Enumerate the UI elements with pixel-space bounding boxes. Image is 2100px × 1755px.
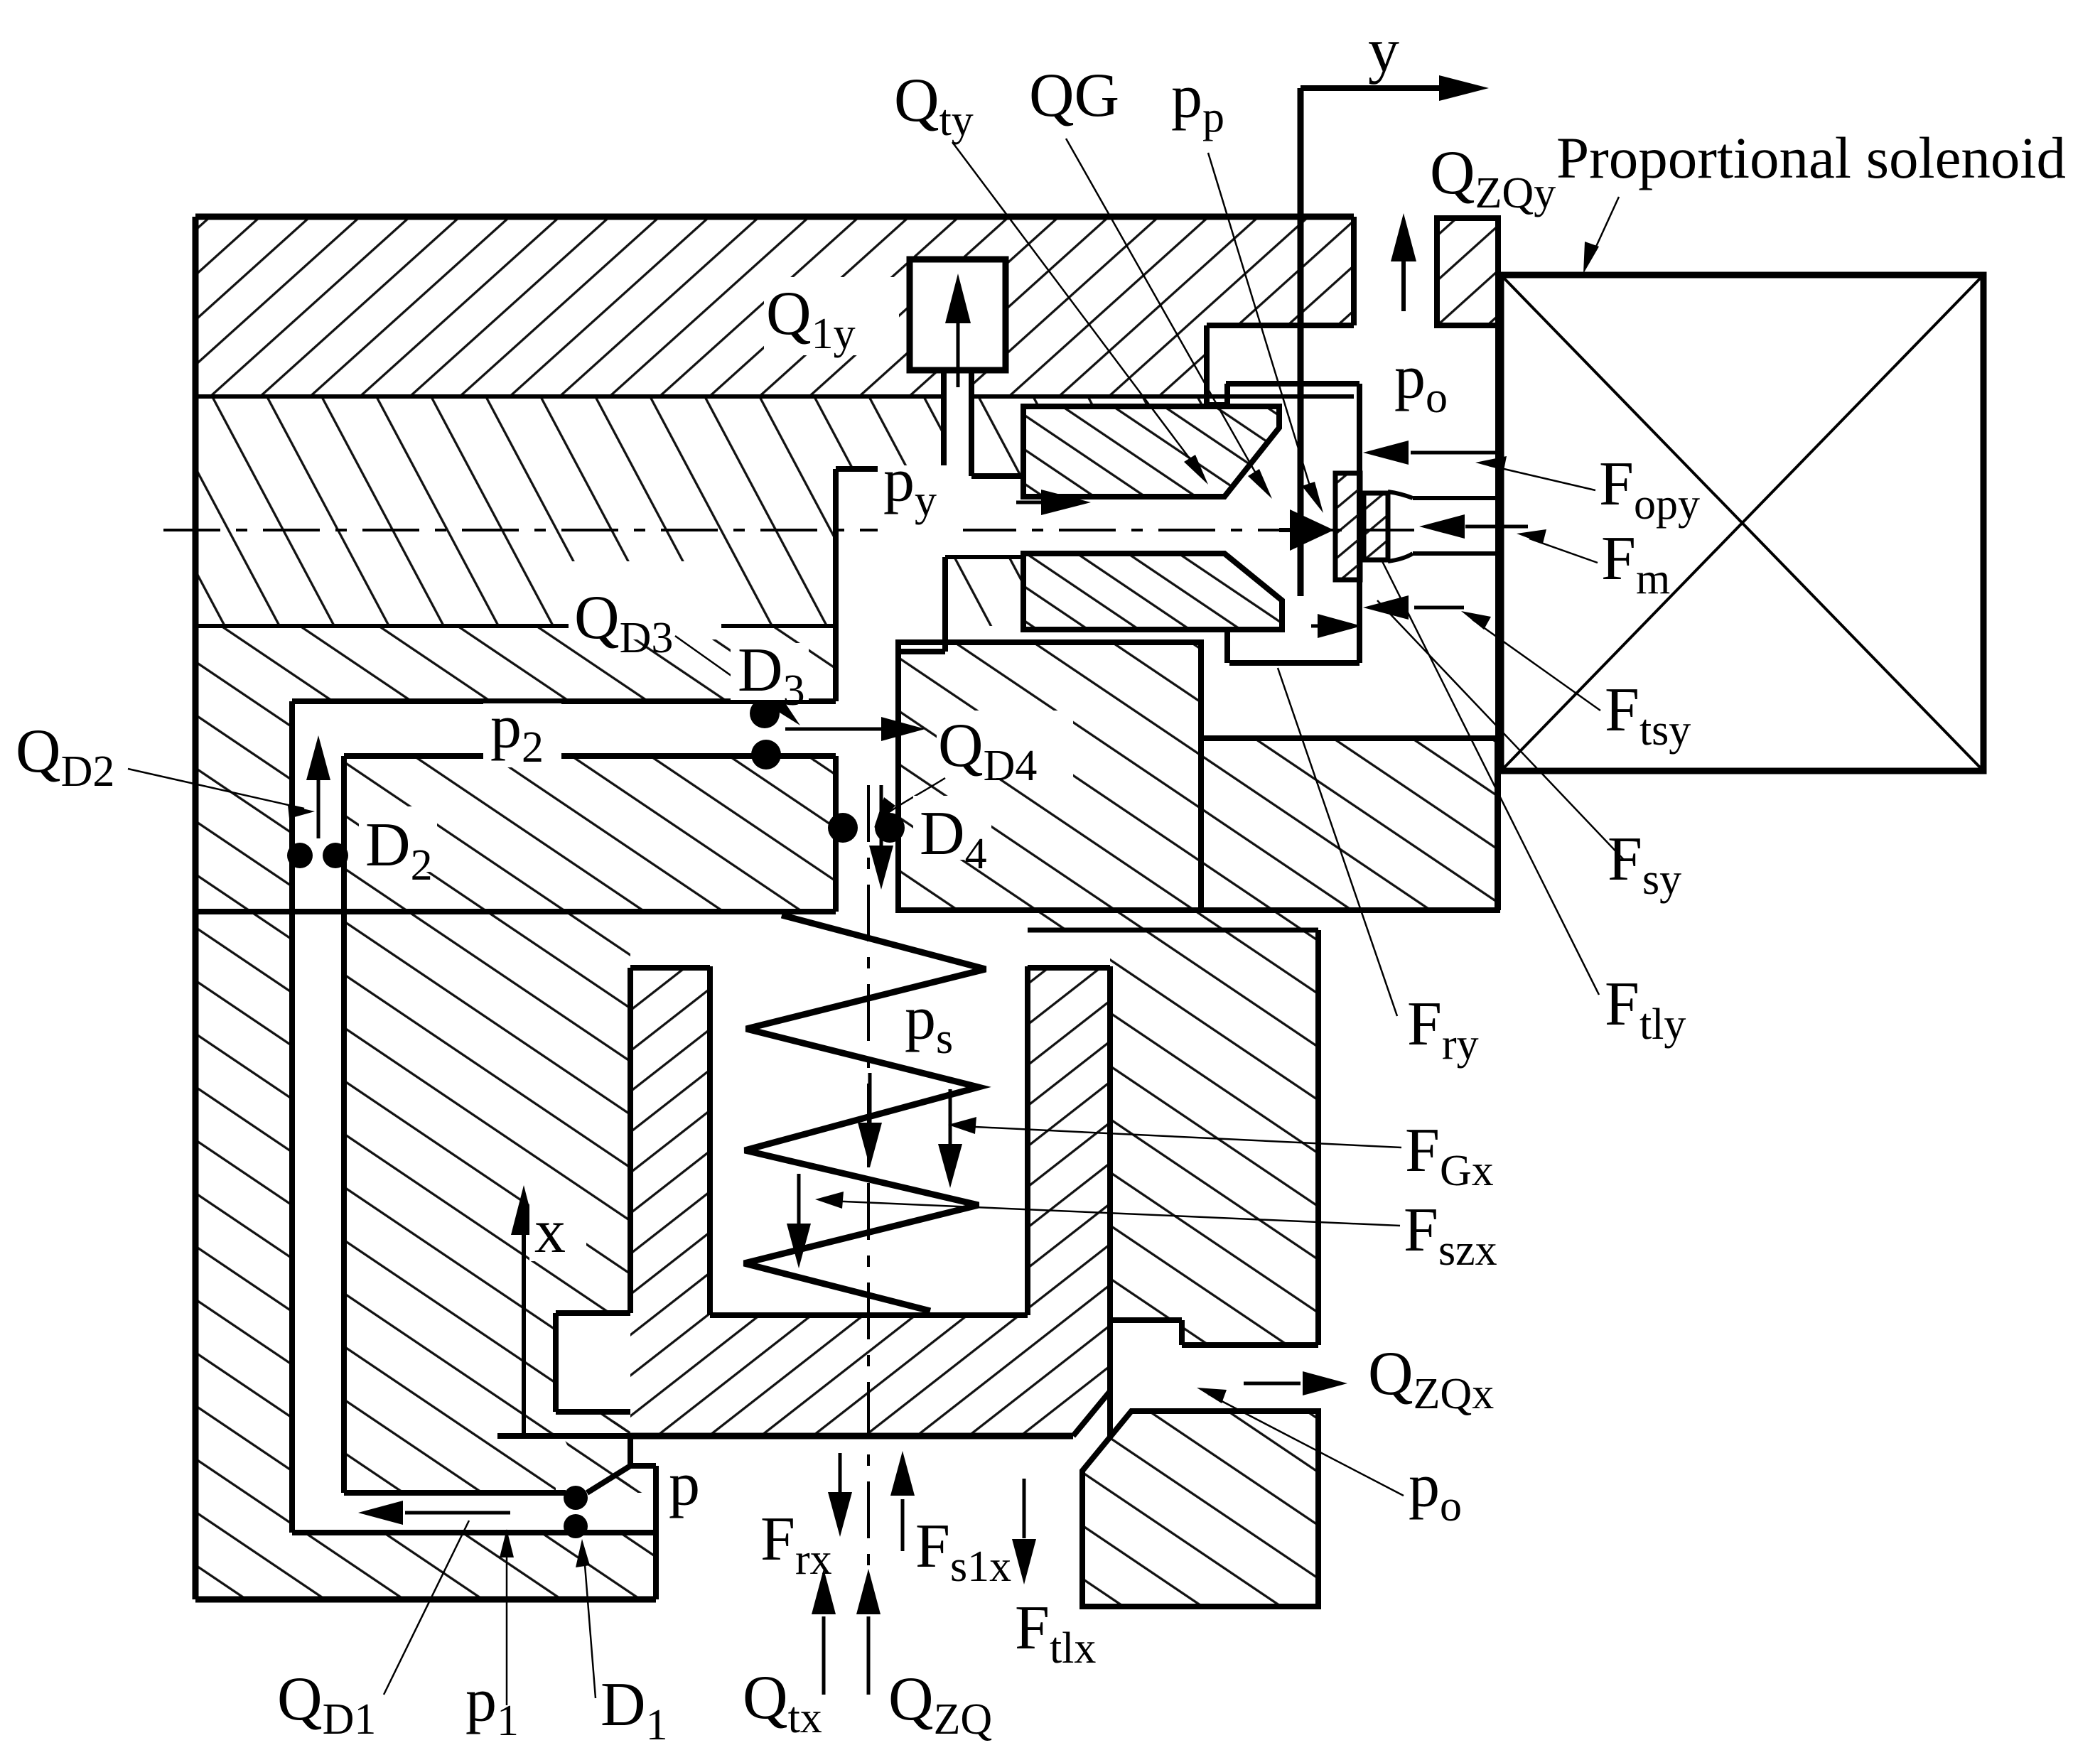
p1 channel outlines [292, 1466, 656, 1599]
QZQ flow arrow [856, 1569, 881, 1695]
right tall block beside spring chamber (hatched) [1110, 930, 1318, 1345]
svg-text:QZQx: QZQx [1368, 1339, 1494, 1418]
svg-text:po: po [1409, 1452, 1462, 1530]
bottom-right block (hatched pentagon) [1082, 1411, 1318, 1606]
Q1y flow arrow [945, 274, 971, 387]
proportional solenoid box with X [1501, 275, 1983, 771]
label x [529, 1197, 586, 1266]
notch vertical edge [1204, 325, 1210, 404]
svg-text:Qty: Qty [894, 66, 974, 145]
sleeve bottom strip (hatched) [1028, 912, 1318, 930]
label D2 [359, 806, 437, 890]
svg-text:FGx: FGx [1405, 1116, 1494, 1195]
Fsy force arrow [1311, 614, 1362, 638]
svg-text:ps: ps [905, 984, 953, 1063]
QZQx flow arrow [1244, 1371, 1347, 1395]
D2 seat dots [287, 843, 348, 868]
p2 channel outlines [292, 701, 836, 756]
svg-text:Fs1x: Fs1x [915, 1512, 1011, 1591]
body outline left edge [193, 217, 199, 1599]
chamber top line left [195, 909, 836, 914]
Ftsy force arrow [1363, 595, 1464, 620]
QD4 drain channel (white) [836, 652, 898, 913]
label p1 with leader [465, 1529, 519, 1745]
label Ftly with leader [1382, 561, 1686, 1049]
x centerline (dash-dot) [867, 785, 870, 1588]
pp flow arrow (into nozzle gap) [1279, 509, 1334, 551]
top-right small block (hatched) [1437, 218, 1498, 325]
D1 seat dots [564, 1486, 588, 1538]
x-spool cup with spring chamber (hatched) [630, 968, 1110, 1436]
label QZQx with leader [1368, 1339, 1494, 1418]
label D3 [731, 636, 809, 715]
Fopy force arrow [1363, 441, 1496, 465]
svg-text:Fszx: Fszx [1404, 1196, 1497, 1275]
svg-text:Proportional solenoid: Proportional solenoid [1556, 125, 2066, 190]
y-spool upper land (hatched) [1023, 406, 1279, 497]
notch to cap ledge line [1207, 402, 1227, 406]
svg-text:Qtx: Qtx [743, 1663, 822, 1742]
nozzle face / y axis line [1298, 88, 1304, 596]
y-spool sleeve right part under cap (hatched) [1201, 738, 1497, 910]
label Fszx with leader [815, 1192, 1497, 1275]
body outline top edge [195, 214, 1354, 220]
D4 seat dots [828, 813, 905, 843]
chamber top line right [898, 907, 1497, 913]
Fszx force arrow [787, 1174, 811, 1268]
py pilot leg top edge [836, 466, 944, 472]
svg-text:y: y [1368, 16, 1399, 85]
x axis arrow [511, 1185, 537, 1436]
label QD1 with leader [277, 1521, 469, 1744]
flapper cap outline [1226, 384, 1359, 663]
QD4 flow arrow [869, 785, 893, 890]
Fm force arrow [1419, 514, 1528, 539]
label QG with leader [1029, 61, 1272, 499]
spool foot pocket outline [497, 1313, 656, 1493]
svg-text:Fsy: Fsy [1608, 825, 1681, 904]
svg-text:QD1: QD1 [277, 1665, 376, 1744]
label Fopy with leader [1475, 450, 1700, 529]
svg-text:D1: D1 [601, 1670, 668, 1749]
svg-text:po: po [1394, 343, 1448, 422]
QD2 flow arrow [306, 735, 330, 838]
svg-text:QG: QG [1029, 61, 1119, 130]
py channel step edge [1021, 406, 1026, 476]
label Q1y [764, 277, 899, 358]
label QD3 with leader [569, 561, 800, 725]
py pilot leg left edge [833, 469, 839, 701]
Ftlx force arrow [1012, 1479, 1036, 1584]
Fs1x force arrow [890, 1451, 915, 1551]
spring chamber cup outline [630, 966, 1110, 1436]
D3 flow arrow [785, 717, 925, 741]
right tall block outline [1110, 930, 1318, 1345]
body right edge of top band [1351, 217, 1357, 325]
Qtx flow arrow [812, 1569, 836, 1695]
label Qty with leader [894, 66, 1208, 485]
label QD4 with leader [874, 711, 1073, 828]
svg-text:x: x [534, 1197, 566, 1266]
armature push rod [1388, 492, 1501, 561]
svg-text:QZQ: QZQ [888, 1665, 992, 1744]
QD2 vertical channel walls [292, 701, 344, 1533]
y-spool sleeve left part (hatched) [898, 642, 1201, 910]
svg-text:Fry: Fry [1407, 990, 1479, 1069]
svg-text:Frx: Frx [760, 1505, 832, 1584]
solenoid interface vertical line [1495, 218, 1501, 910]
svg-text:Ftly: Ftly [1605, 970, 1686, 1049]
valve body third band (hatched) [195, 626, 836, 913]
py channel bottom edge [945, 555, 1023, 559]
Q1y outlet box [910, 259, 1006, 476]
label py [878, 446, 963, 536]
py channel top edge [971, 473, 1023, 479]
notch horizontal edge [1207, 323, 1354, 328]
flapper plate (hatched) [1335, 473, 1360, 580]
label D4 [913, 796, 991, 878]
svg-text:p1: p1 [465, 1666, 519, 1745]
body band boundary line [195, 394, 944, 399]
QD1 flow arrow [358, 1501, 510, 1525]
svg-text:pp: pp [1171, 63, 1224, 141]
spring (zigzag) [744, 915, 986, 1311]
sleeve bottom second line [1028, 928, 1318, 933]
valve body second band (hatched) [195, 325, 1354, 652]
py flow arrow [1016, 490, 1091, 515]
label Ftsy with leader [1461, 611, 1691, 755]
svg-text:QD2: QD2 [16, 717, 114, 796]
label po bottom with leader [1197, 1388, 1462, 1530]
D3 seat dots [750, 698, 781, 769]
y-spool lower land (hatched) [1023, 553, 1282, 630]
QD4 channel right wall [895, 642, 901, 912]
Frx force arrow [828, 1453, 852, 1537]
body band boundary line right part [971, 394, 1354, 399]
py centerline (dash-dot) [163, 529, 1425, 531]
label p2 [483, 693, 561, 772]
label Proportional solenoid with leader arrow [1556, 125, 2066, 274]
py pilot leg bottom edge [898, 649, 945, 654]
FGx force arrow [938, 1089, 962, 1188]
body band2/band3 boundary line [195, 624, 836, 628]
armature pad (hatched) [1364, 493, 1388, 560]
bottom-left body block (hatched) [195, 912, 656, 1599]
label Fry with leader [1278, 668, 1479, 1069]
svg-text:p: p [669, 1450, 700, 1519]
spring axis force arrow [858, 1073, 882, 1167]
body bottom edge [195, 1597, 656, 1603]
label FGx with leader [948, 1116, 1494, 1195]
valve body top band (hatched) [195, 217, 1354, 396]
y axis arrow [1301, 75, 1489, 101]
label D1 with leader [576, 1539, 668, 1749]
svg-text:QZQy: QZQy [1430, 139, 1556, 217]
label Fsy with leader [1377, 600, 1681, 904]
label pp with leader [1171, 63, 1323, 513]
py pilot leg right edge [942, 557, 948, 652]
label Fm with leader [1517, 524, 1670, 603]
label QD2 with leader [16, 717, 315, 819]
py pilot leg left edge lower [833, 756, 839, 912]
sleeve top edge line [1201, 735, 1497, 741]
QZQy flow arrow [1391, 213, 1416, 311]
